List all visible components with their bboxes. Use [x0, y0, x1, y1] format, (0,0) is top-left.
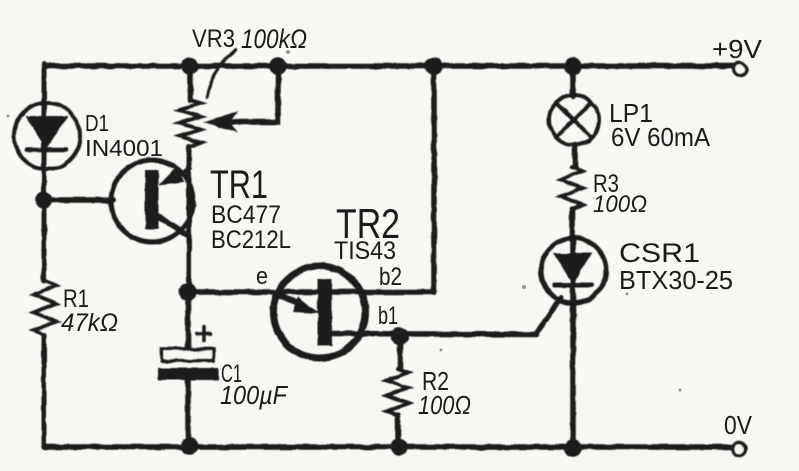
svg-text:BTX30-25: BTX30-25	[619, 265, 733, 295]
svg-text:0V: 0V	[724, 410, 753, 440]
svg-text:47kΩ: 47kΩ	[61, 309, 118, 337]
svg-text:100kΩ: 100kΩ	[241, 24, 307, 54]
svg-text:6V 60mA: 6V 60mA	[611, 122, 711, 152]
svg-text:IN4001: IN4001	[85, 135, 163, 161]
svg-text:VR3: VR3	[192, 25, 235, 53]
svg-text:BC212L: BC212L	[211, 226, 291, 254]
svg-text:BC477: BC477	[211, 201, 281, 229]
svg-text:b1: b1	[378, 302, 398, 330]
svg-text:100Ω: 100Ω	[418, 390, 471, 420]
svg-text:100µF: 100µF	[220, 380, 289, 410]
svg-text:e: e	[256, 263, 268, 290]
svg-text:TIS43: TIS43	[334, 237, 396, 265]
svg-text:+9V: +9V	[712, 34, 763, 64]
svg-text:CSR1: CSR1	[619, 238, 700, 268]
svg-text:b2: b2	[379, 263, 402, 291]
svg-text:D1: D1	[85, 110, 109, 136]
svg-text:100Ω: 100Ω	[593, 191, 647, 218]
